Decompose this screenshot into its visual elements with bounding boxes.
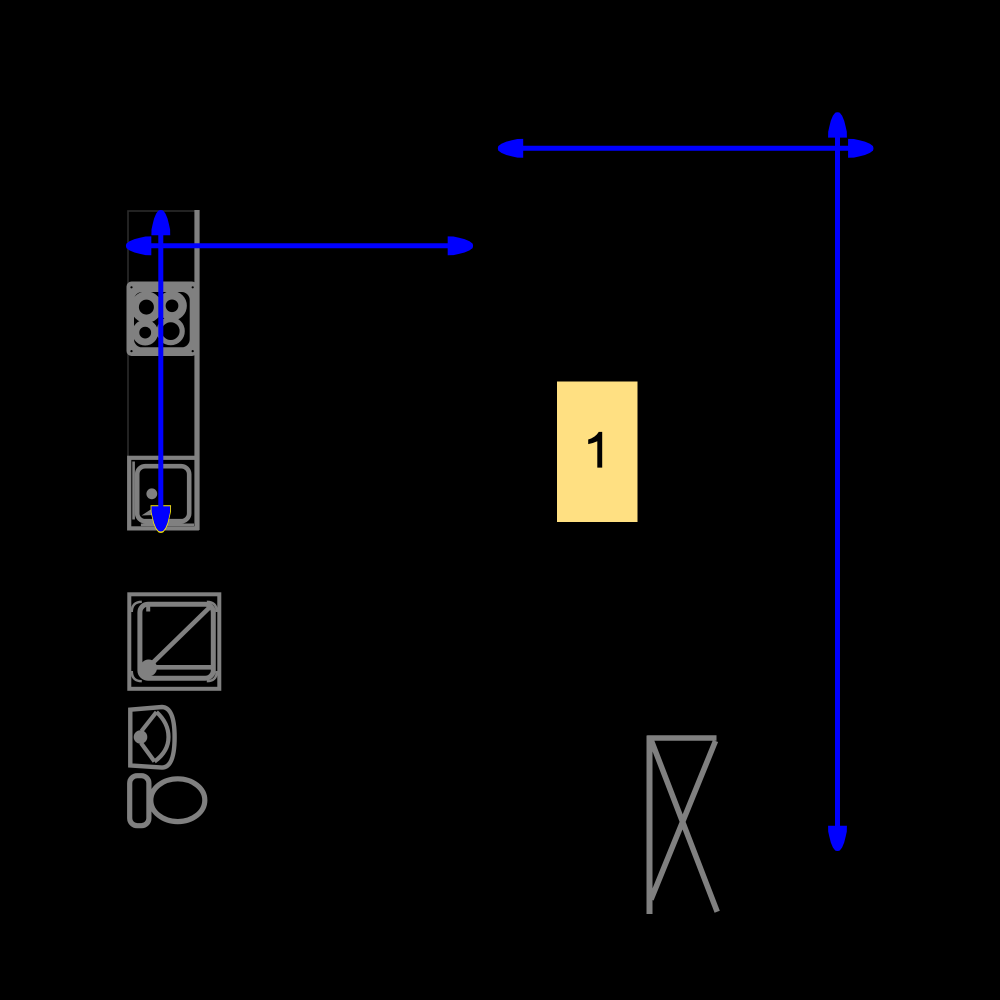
stove cooktop area <box>134 292 190 347</box>
shower bottom line <box>154 665 212 670</box>
sink outer rim <box>129 458 197 529</box>
stove panel <box>127 282 198 357</box>
corner arcs <box>132 602 142 612</box>
burner bottom-left <box>136 323 155 342</box>
kitchen counter front edge wall line <box>194 210 199 530</box>
basin bowl arc <box>155 712 169 762</box>
door jamb line (vertical) <box>647 736 653 915</box>
sink drain <box>146 488 157 499</box>
label "1" <box>588 432 602 468</box>
basin drain disc <box>134 730 148 744</box>
dimension arrow: room height (vertical, right) <box>828 112 847 851</box>
sink basin <box>137 466 189 521</box>
washbasin outline <box>130 707 174 768</box>
dimension arrow: kitchen length (vertical) <box>151 210 171 533</box>
corner screw dots <box>130 286 132 288</box>
shower drain <box>140 660 157 677</box>
yellow underlay at bottom head <box>151 505 171 533</box>
door cross line A <box>652 741 718 912</box>
dimension arrow: room width (horizontal, top) <box>498 139 874 158</box>
sink wedge <box>142 507 155 516</box>
kitchen counter outline <box>128 211 198 530</box>
door symbol <box>647 736 717 915</box>
door cross line B <box>651 741 716 900</box>
cistern <box>130 776 149 826</box>
shower diagonal <box>149 606 212 667</box>
burner top-right <box>161 295 182 316</box>
bowl <box>151 779 205 822</box>
kitchen sink <box>129 458 197 529</box>
shower outer square <box>129 594 219 689</box>
sink inner edge bottom <box>141 523 194 526</box>
shower tray <box>140 604 213 678</box>
toilet <box>130 776 205 826</box>
dimension arrow: kitchen width (horizontal) <box>126 236 473 255</box>
bowl lines <box>142 712 157 731</box>
sink inner edge left <box>132 462 135 520</box>
room 1 marker (yellow) <box>557 382 638 523</box>
washbasin <box>130 707 174 768</box>
door header line (top) <box>647 735 716 741</box>
burner top-left <box>135 296 158 319</box>
faucet tick <box>146 603 150 612</box>
stove <box>127 282 198 357</box>
burner bottom-right <box>159 320 182 343</box>
shower <box>129 594 219 689</box>
